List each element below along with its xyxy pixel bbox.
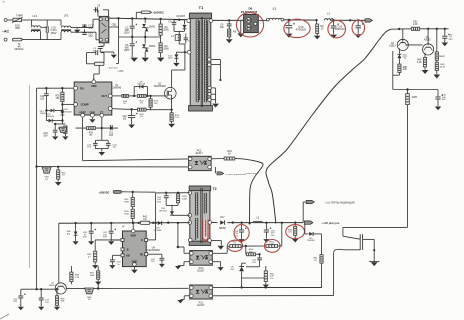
- svg-text:50V: 50V: [13, 301, 17, 303]
- ground: [237, 20, 244, 37]
- transistor Q2 W12NK90Z: [153, 83, 177, 99]
- wire: [156, 192, 190, 194]
- wire VREF drop: [82, 117, 84, 161]
- shunt regulator U5 TL431: [230, 263, 245, 276]
- transformer T2 body: [189, 186, 211, 245]
- svg-text:JP: JP: [122, 226, 125, 228]
- node T1 pin 5: [208, 93, 216, 96]
- svg-text:ZNR2: ZNR2: [149, 45, 156, 48]
- connector arrow indication: [303, 200, 314, 203]
- svg-text:1%: 1%: [270, 278, 273, 280]
- resistor R10 8.2: [112, 94, 128, 105]
- connector arrow +5V out: [365, 19, 372, 22]
- node T1 pin 2: [187, 50, 191, 54]
- capacitor C32: [435, 90, 446, 107]
- svg-text:1N4148: 1N4148: [64, 111, 72, 113]
- inductor L4: [171, 35, 180, 41]
- capacitor C54: [264, 223, 276, 239]
- label k plate upravleniya: [245, 173, 259, 175]
- wire: [278, 223, 282, 246]
- svg-text:10K: 10K: [56, 98, 61, 100]
- label -88V: [117, 70, 124, 73]
- svg-text:200V: 200V: [124, 31, 130, 34]
- wire: [258, 19, 267, 21]
- wire PC1 left lower to ground: [177, 296, 189, 304]
- resistor R12: [137, 87, 152, 105]
- capacitor C30: [184, 35, 193, 43]
- ground U4: [131, 270, 138, 274]
- diode D13 1N4148: [46, 114, 56, 123]
- svg-text:L1: L1: [273, 6, 277, 10]
- resistor R21 1K: [57, 166, 67, 182]
- node T1 pin 10: [209, 19, 213, 23]
- wire Q4 base to Q5: [406, 44, 423, 46]
- wire PC3 left lower: [123, 262, 190, 270]
- connector 300V pill: [113, 190, 121, 193]
- svg-text:CM0843: CM0843: [112, 87, 122, 90]
- wire: [259, 245, 261, 247]
- capacitor C20: [40, 88, 49, 100]
- ground: [109, 265, 115, 269]
- svg-text:A1015: A1015: [424, 39, 431, 42]
- capacitor C19: [43, 123, 62, 138]
- resistor R53: [87, 240, 120, 265]
- wire +300VDC tap: [136, 12, 141, 18]
- node: [117, 17, 119, 19]
- ground: [108, 241, 114, 245]
- highlight ellipse R62: [227, 240, 242, 251]
- svg-text:к (+) ПЛАТЫ ИНДИКАЦИИ: к (+) ПЛАТЫ ИНДИКАЦИИ: [325, 201, 355, 204]
- svg-text:50V: 50V: [442, 99, 446, 101]
- svg-text:472: 472: [89, 27, 94, 30]
- zener ZD1: [397, 48, 407, 64]
- svg-text:+12В Дежурка: +12В Дежурка: [322, 221, 340, 225]
- diode D18 UF1003: [154, 221, 163, 232]
- wire: [343, 227, 408, 236]
- svg-text:4.7K: 4.7K: [75, 277, 80, 279]
- svg-text:100K: 100K: [182, 198, 188, 200]
- wire FWR rail: [393, 88, 438, 90]
- wire mid rail: [119, 36, 161, 38]
- ground: [141, 58, 148, 62]
- resistor R4a 200K: [159, 19, 169, 37]
- resistor R16: [55, 88, 64, 104]
- svg-text:UF2007: UF2007: [176, 15, 186, 18]
- capacitor C16: [122, 109, 137, 124]
- ground: [212, 104, 219, 108]
- resistor R43 6.8: [140, 217, 150, 225]
- label PC1: [198, 301, 206, 306]
- wire bottom left rail: [21, 288, 59, 294]
- bridge rectifier CB1: [99, 16, 119, 42]
- inductor L5: [253, 216, 262, 222]
- wire: [7, 19, 31, 21]
- node U4 pin VDD: [130, 222, 136, 238]
- wire FB net: [37, 87, 74, 89]
- wire: [284, 19, 316, 21]
- wire: [211, 241, 221, 246]
- fusible resistor FB1: [141, 11, 150, 14]
- svg-text:2007: 2007: [168, 58, 174, 60]
- inductor LF2: [61, 14, 71, 33]
- resistor R17: [62, 124, 67, 136]
- label PC2: [196, 149, 204, 154]
- capacitor C9 top: [94, 4, 109, 16]
- node U1 pin GND: [90, 111, 96, 117]
- highlight ellipse D6: [236, 13, 263, 37]
- label T1: [199, 5, 204, 10]
- zener D19: [66, 222, 77, 241]
- ground switch: [369, 262, 379, 267]
- resistor R45 120: [288, 222, 297, 239]
- svg-text:1K: 1K: [228, 153, 231, 156]
- resistor R46 2.4K: [417, 53, 427, 70]
- ground: [38, 307, 44, 311]
- ground: [292, 239, 298, 243]
- wire: [58, 223, 60, 282]
- wire: [391, 28, 411, 30]
- capacitor C10: [285, 20, 306, 33]
- transformer T2 secondary winding highlighted: [203, 219, 208, 242]
- node U4 pin 3: [121, 248, 129, 252]
- node T2 pin 4: [189, 238, 193, 242]
- resistor R9: [315, 19, 324, 36]
- label D6: [241, 6, 258, 14]
- node T2 pin 6: [208, 239, 212, 243]
- node U4 pin FB2: [112, 238, 124, 241]
- wire FB long vertical: [36, 88, 38, 166]
- svg-text:1M: 1M: [123, 119, 126, 121]
- wire: [215, 88, 217, 103]
- svg-text:ICE2A0565Z: ICE2A0565Z: [147, 249, 161, 252]
- svg-text:200K: 200K: [163, 28, 169, 31]
- resistor R14 0R47: [170, 110, 180, 124]
- label JP: [122, 226, 125, 228]
- capacitor C31 47 50V: [442, 29, 453, 42]
- capacitor CX1: [46, 26, 57, 34]
- wire LED bias: [227, 245, 230, 247]
- label k + plate indikacii: [325, 201, 355, 204]
- ground: [263, 239, 269, 243]
- highlight ellipse C41: [328, 20, 346, 37]
- svg-text:COMP: COMP: [81, 103, 89, 107]
- ground: [111, 55, 117, 59]
- capacitor C18: [39, 289, 50, 306]
- svg-text:GND: GND: [132, 260, 138, 264]
- diode D21: [168, 52, 179, 62]
- wire: [71, 19, 99, 40]
- svg-text:VDD: VDD: [91, 84, 97, 88]
- ground U1: [89, 117, 95, 123]
- capacitor C45 224: [252, 258, 262, 264]
- op-amp U1 PWM controller: [74, 82, 112, 115]
- svg-text:2200x16: 2200x16: [335, 28, 345, 31]
- ground: [130, 58, 137, 62]
- label +12V dezhurka: [322, 221, 340, 225]
- transformer T1 core: [201, 17, 202, 107]
- wire PC1 right lower: [213, 249, 344, 295]
- svg-text:T34R2: T34R2: [439, 56, 446, 58]
- ground: [314, 36, 321, 40]
- diode D6 dual schottky: [244, 15, 259, 33]
- resistor R13 12K: [149, 95, 159, 110]
- wire: [46, 99, 63, 124]
- wire vref-opto rail: [83, 159, 189, 161]
- ground: [330, 35, 337, 39]
- ground: [422, 70, 429, 74]
- ground: [95, 282, 101, 286]
- node U1 pin VC: [108, 107, 112, 111]
- wire Q2 source: [151, 95, 173, 111]
- trimmer VR3: [85, 288, 94, 301]
- transistor Q4 A1013: [389, 29, 408, 51]
- ground: [226, 39, 233, 43]
- label U4: [147, 248, 161, 252]
- svg-text:FB: FB: [80, 86, 84, 90]
- svg-text:B: B: [127, 249, 129, 252]
- wire: [121, 191, 155, 193]
- thermistor THR0: [12, 14, 23, 31]
- resistor R8: [228, 29, 237, 39]
- svg-text:10K: 10K: [60, 301, 64, 303]
- wire line A curve: [235, 159, 263, 224]
- optocoupler PC2 EL817: [188, 156, 211, 170]
- transformer T1 primary winding: [196, 20, 200, 103]
- ground: [442, 43, 449, 47]
- resistor R34 1K: [211, 150, 234, 160]
- trimmer RV1: [59, 127, 67, 132]
- wire: [343, 250, 374, 262]
- resistor FWR: [406, 90, 418, 111]
- ground: [157, 58, 164, 62]
- wire lower opto rail: [35, 165, 188, 167]
- transistor Q7 A1015: [49, 283, 66, 294]
- resistor R63 1.7K: [266, 241, 278, 247]
- transformer T2 core: [201, 188, 202, 243]
- svg-text:50V: 50V: [83, 237, 87, 239]
- svg-text:1.7K: 1.7K: [269, 244, 274, 246]
- svg-text:OUT: OUT: [101, 94, 107, 98]
- ground: [74, 30, 80, 34]
- svg-text:FB: FB: [140, 253, 144, 256]
- svg-text:A1013: A1013: [389, 44, 396, 47]
- capacitor C8 bottom: [93, 43, 114, 54]
- trimmer VR2: [42, 167, 51, 181]
- optocoupler PC1 EL817: [190, 285, 213, 299]
- svg-text:50V: 50V: [103, 237, 107, 239]
- wire PC3 left wiring: [178, 247, 190, 253]
- svg-text:1N4148: 1N4148: [307, 240, 315, 242]
- resistor R33 2.4K: [411, 22, 419, 31]
- wire Q2 drain: [172, 51, 186, 88]
- capacitor CY1: [82, 25, 93, 30]
- svg-text:D17: D17: [220, 217, 225, 219]
- wire: [256, 253, 261, 258]
- ground: [239, 239, 245, 243]
- svg-text:GBU806: GBU806: [109, 26, 119, 29]
- svg-text:250V: 250V: [51, 32, 57, 35]
- inductor L1: [266, 6, 283, 21]
- ground: [263, 285, 269, 289]
- svg-text:05R: 05R: [15, 27, 20, 30]
- svg-text:12K: 12K: [154, 103, 158, 105]
- transformer T1 secondary winding: [204, 20, 208, 103]
- capacitor C13 loop: [87, 50, 105, 64]
- capacitor C9a: [220, 19, 232, 29]
- svg-text:1KV: 1KV: [157, 201, 162, 203]
- resistor R19: [87, 127, 96, 137]
- diode D7: [183, 20, 187, 32]
- svg-text:15K: 15K: [249, 251, 253, 253]
- node U1 pin OUT: [101, 94, 112, 98]
- node T1 pin 4: [208, 86, 216, 89]
- zener ZNR1: [142, 19, 156, 37]
- svg-text:D6: D6: [249, 6, 253, 10]
- svg-text:≈-88V: ≈-88V: [117, 70, 124, 73]
- wire: [420, 28, 449, 30]
- wire: [174, 19, 185, 32]
- wire CT net rail: [76, 117, 119, 129]
- resistor R20 1K: [137, 108, 150, 118]
- highlight ellipse R63: [264, 240, 280, 253]
- svg-text:50V: 50V: [449, 39, 453, 41]
- svg-text:ZNR1: ZNR1: [149, 25, 156, 28]
- wire: [245, 246, 248, 254]
- ground: [88, 241, 94, 245]
- ground: [55, 182, 62, 186]
- node T1 pin 6: [208, 98, 216, 101]
- wire long drop to switch: [407, 110, 409, 227]
- node T2 pin 2: [188, 214, 192, 218]
- highlight ellipse C42: [352, 20, 365, 35]
- wire standby rail: [59, 222, 190, 225]
- svg-text:50V: 50V: [44, 136, 49, 138]
- label +300VDC: [150, 11, 164, 15]
- wire: [155, 193, 157, 223]
- ground: [433, 75, 440, 79]
- wire FB vertical to bottom: [36, 167, 38, 290]
- svg-text:UF1003: UF1003: [154, 230, 163, 232]
- svg-text:200V: 200V: [124, 49, 130, 52]
- capacitor C15: [13, 289, 36, 306]
- capacitor C2: [124, 19, 137, 38]
- wire D17 rail: [212, 221, 304, 224]
- svg-text:1N4148: 1N4148: [137, 84, 145, 86]
- op-amp U4 ICE2A0565Z: [123, 231, 147, 267]
- diode D16 UF1007: [159, 208, 190, 215]
- optocoupler PC3 EL817: [190, 251, 213, 266]
- capacitor C22 C23 pair: [87, 128, 117, 152]
- resistor R40 750K: [124, 207, 134, 223]
- svg-text:+16V/-22V: +16V/-22V: [107, 68, 118, 70]
- svg-text:472: 472: [89, 35, 94, 38]
- svg-text:LF1: LF1: [33, 14, 38, 18]
- wire: [393, 51, 400, 90]
- svg-text:THR0: THR0: [16, 14, 23, 18]
- diode D8 1N4148: [137, 81, 147, 88]
- wire secondary rail: [213, 19, 244, 21]
- svg-text:LF2: LF2: [64, 14, 69, 18]
- node U1 pin VDD: [91, 78, 97, 88]
- svg-text:1N4148: 1N4148: [47, 116, 55, 118]
- transformer T2 aux winding: [204, 193, 206, 214]
- diode D17 SB360: [219, 217, 227, 230]
- svg-text:2.4K: 2.4K: [417, 62, 422, 64]
- node U1 pin CT: [100, 111, 104, 117]
- svg-text:2.4K: 2.4K: [413, 24, 418, 26]
- wire: [330, 19, 365, 21]
- svg-text:EL817: EL817: [198, 269, 206, 272]
- svg-text:EL817: EL817: [198, 304, 206, 307]
- ground: [99, 152, 106, 156]
- node T2 pin 5: [208, 221, 212, 225]
- resistor R64 15K: [246, 249, 255, 256]
- transformer T2 winding lower: [195, 218, 197, 240]
- diode D4 vdd supply: [94, 62, 118, 80]
- inductor L3: [317, 13, 334, 21]
- wire: [242, 276, 266, 282]
- svg-text:750K: 750K: [124, 201, 130, 203]
- node: [131, 17, 162, 20]
- wire gate node: [128, 87, 137, 98]
- diode D12 1N4148: [40, 109, 64, 115]
- transformer T2 primary winding: [195, 193, 197, 216]
- capacitor C62: [151, 254, 165, 267]
- connector arrow 12V standby: [304, 221, 313, 224]
- resistor R42 750K: [124, 192, 134, 207]
- ground: [285, 34, 292, 38]
- zener ZNR2: [142, 37, 156, 57]
- svg-text:D: D: [141, 239, 143, 242]
- svg-text:200K: 200K: [163, 47, 169, 50]
- node T1 aux pin a: [208, 58, 221, 61]
- ground: [73, 241, 79, 245]
- svg-text:к плате упр-я: к плате упр-я: [245, 173, 259, 175]
- diode D15 1N4148: [303, 226, 321, 242]
- svg-text:VDD: VDD: [130, 233, 136, 237]
- node T1 pin 1: [187, 19, 191, 23]
- svg-text:100K: 100K: [89, 275, 95, 277]
- wire: [47, 20, 61, 40]
- resistor R48 18.2K: [435, 60, 446, 74]
- wire: [304, 224, 306, 234]
- node AC neutral terminal: [4, 38, 7, 41]
- transformer T1 body: [189, 13, 213, 111]
- svg-text:7K: 7K: [89, 135, 92, 137]
- resistor R35 100: [398, 64, 408, 75]
- svg-text:~AC: ~AC: [2, 29, 10, 33]
- capacitor C52: [157, 193, 169, 206]
- svg-text:SB360: SB360: [219, 228, 227, 230]
- ground: [355, 34, 362, 38]
- label PC3: [198, 267, 206, 272]
- ground: [168, 124, 175, 128]
- resistor R59 10K: [55, 289, 65, 306]
- resistor R61 1K: [313, 234, 323, 288]
- ground: [218, 246, 225, 250]
- svg-text:W12NK90Z: W12NK90Z: [154, 86, 166, 88]
- label U1: [112, 84, 122, 89]
- connector arrow control: [210, 167, 247, 176]
- ground: [92, 265, 98, 269]
- resistor R4b 200K: [159, 37, 169, 57]
- wire: [242, 254, 246, 263]
- svg-text:GND: GND: [90, 111, 96, 114]
- resistor R57 100K: [89, 266, 99, 281]
- wire: [41, 20, 48, 40]
- capacitor C42: [355, 19, 363, 34]
- wire: [246, 264, 259, 267]
